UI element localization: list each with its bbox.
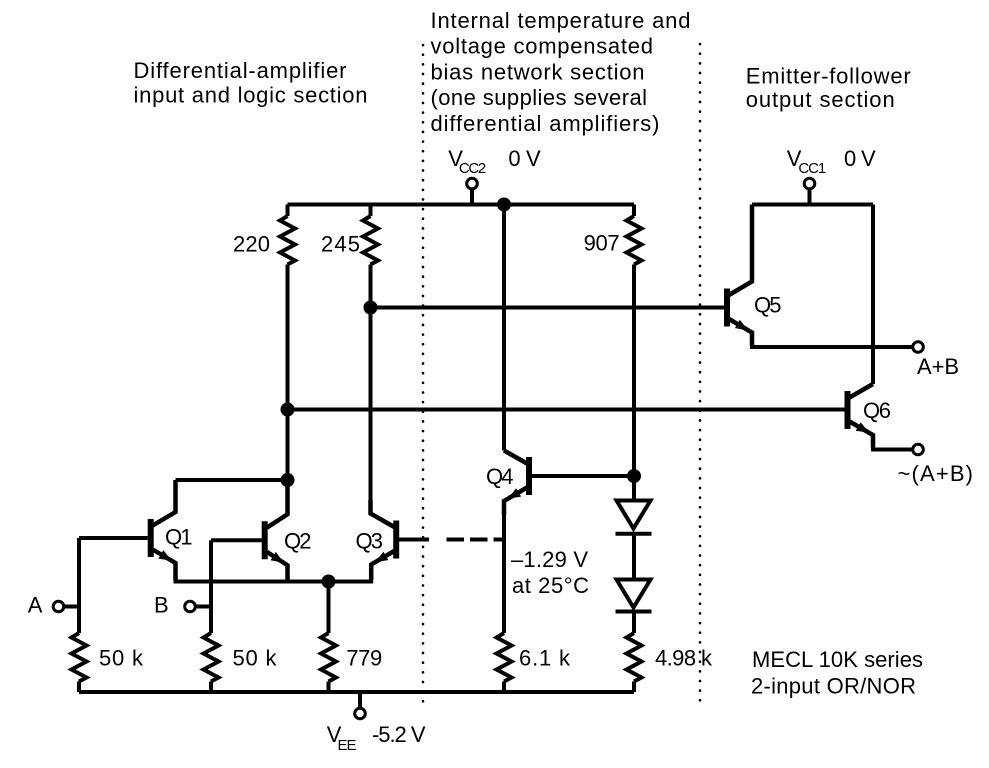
wire: VEE bottom rail xyxy=(79,690,634,694)
svg-text:Q2: Q2 xyxy=(284,528,312,553)
wire: 220 branch vertical (VCC2 to Q2 collector) xyxy=(286,205,290,217)
wire: VEE terminal stub xyxy=(358,692,362,709)
svg-text:50 k: 50 k xyxy=(233,646,278,671)
wire: Q6 emitter to ~(A+B) output xyxy=(873,445,913,450)
svg-text:6.1 k: 6.1 k xyxy=(519,646,571,671)
resistor R 50k (B) xyxy=(204,633,219,682)
diode D2 cathode bar xyxy=(616,610,652,614)
transistor Q5 emitter arrow xyxy=(735,320,748,331)
wire: dashed bias connection to Q3 base xyxy=(447,538,503,542)
transistor Q6 emitter xyxy=(850,422,874,448)
svg-text:EE: EE xyxy=(338,737,357,754)
wire: Q2 base wire from B xyxy=(211,538,262,542)
node: dot junction Q4 base / diodes xyxy=(627,469,641,483)
wire: 50k B to rail xyxy=(209,682,213,693)
transistor Q5 emitter xyxy=(729,319,752,345)
svg-text:245: 245 xyxy=(321,232,360,257)
wire: 245 branch vertical top xyxy=(369,205,373,217)
wire: 4.98k to rail xyxy=(632,682,636,693)
transistor Q1 base bar xyxy=(148,519,154,557)
terminal VCC1 xyxy=(804,178,815,189)
transistor Q3 emitter xyxy=(371,551,394,580)
wire: 6.1k to rail xyxy=(502,682,506,693)
svg-text:–1.29 V: –1.29 V xyxy=(511,547,588,572)
svg-text:907: 907 xyxy=(584,231,620,256)
transistor Q3 base bar xyxy=(393,521,399,559)
wire: Q4 emitter vertical to 6.1k xyxy=(502,501,506,633)
wire: between diodes xyxy=(632,534,636,579)
wire: D2 to 4.98k xyxy=(632,612,636,634)
wire: 779 to rail xyxy=(327,682,331,693)
wire: 50k A to rail xyxy=(77,682,81,693)
wire: VCC2 terminal stub xyxy=(470,188,474,205)
svg-text:CC1: CC1 xyxy=(798,160,826,177)
svg-text:MECL 10K series: MECL 10K series xyxy=(752,647,923,672)
svg-text:Q3: Q3 xyxy=(356,529,384,554)
svg-text:Q1: Q1 xyxy=(165,524,193,549)
svg-text:differential amplifiers): differential amplifiers) xyxy=(431,111,660,136)
wire: emitter rail Q1-Q3 xyxy=(174,580,374,584)
transistor Q4 base bar xyxy=(526,457,532,495)
wire: A input stub xyxy=(64,605,79,609)
svg-text:Q6: Q6 xyxy=(863,398,891,423)
resistor R 245 xyxy=(363,216,378,265)
wire: Q3 base stub xyxy=(399,538,429,542)
svg-text:~(A+B): ~(A+B) xyxy=(898,461,974,486)
resistor R 220 xyxy=(280,216,295,265)
svg-text:779: 779 xyxy=(346,646,382,671)
wire: 220 bottom vertical xyxy=(286,265,290,513)
diode D1 cathode bar xyxy=(616,532,652,536)
resistor R 6.1k xyxy=(497,633,512,682)
svg-text:50 k: 50 k xyxy=(99,646,144,671)
transistor Q3 emitter arrow xyxy=(375,552,388,563)
transistor Q2 emitter arrow xyxy=(271,552,284,563)
svg-text:bias network section: bias network section xyxy=(431,60,645,85)
svg-text:Internal temperature and: Internal temperature and xyxy=(431,8,691,33)
svg-text:Q5: Q5 xyxy=(754,293,782,318)
node: dot junction Q6 base wire xyxy=(281,403,295,417)
wire: Q6 collector vertical to VCC1 xyxy=(871,205,875,385)
wire: Q6 base wire xyxy=(288,408,845,412)
terminal VEE xyxy=(355,708,366,719)
wire: VCC2 to Q4 collector vertical xyxy=(502,205,506,451)
transistor Q1 emitter arrow xyxy=(158,550,171,561)
svg-text:B: B xyxy=(154,593,169,618)
svg-text:CC2: CC2 xyxy=(459,160,486,177)
transistor Q5 base bar xyxy=(724,289,730,327)
svg-text:Q4: Q4 xyxy=(486,464,514,489)
wire: Q5 base wire xyxy=(371,306,725,310)
wire: VCC2 top rail xyxy=(288,203,635,207)
transistor Q4 collector xyxy=(504,451,527,464)
svg-text:voltage compensated: voltage compensated xyxy=(431,34,654,59)
transistor Q2 emitter xyxy=(267,552,288,580)
transistor Q2 collector xyxy=(267,480,288,528)
wire: Q1 base wire from A xyxy=(79,536,148,540)
terminal VCC2 xyxy=(467,178,478,189)
svg-text:output section: output section xyxy=(746,87,895,112)
wire: VCC1 terminal stub xyxy=(808,188,812,205)
svg-text:-5.2 V: -5.2 V xyxy=(372,722,426,747)
svg-text:0 V: 0 V xyxy=(844,146,876,171)
section divider dotted line right xyxy=(699,44,702,704)
node: dot junction Q5 base wire xyxy=(364,301,378,315)
wire: Q5 emitter to A+B output xyxy=(752,343,913,347)
svg-text:at 25°C: at 25°C xyxy=(512,573,589,598)
svg-text:Emitter-follower: Emitter-follower xyxy=(746,63,911,88)
svg-text:A: A xyxy=(28,593,43,618)
node: emitter rail dot to 779 xyxy=(322,575,336,589)
transistor Q1 collector xyxy=(153,480,176,526)
transistor Q4 emitter arrow xyxy=(508,488,521,499)
svg-text:220: 220 xyxy=(233,232,270,257)
resistor R 50k (A) xyxy=(72,633,87,682)
svg-text:0 V: 0 V xyxy=(508,146,541,171)
wire: Q4 base wire to diode node xyxy=(532,474,635,478)
wire: 245 bottom vertical to Q3 collector xyxy=(369,265,373,514)
terminal input A xyxy=(53,601,64,612)
wire: 907 branch vertical top xyxy=(632,205,636,217)
transistor Q6 collector xyxy=(850,384,874,398)
wire: VCC1 top rail xyxy=(752,203,873,207)
wire: A branch vertical xyxy=(77,538,81,633)
terminal input B xyxy=(185,601,196,612)
svg-text:input and logic section: input and logic section xyxy=(134,83,368,108)
wire: B input stub xyxy=(195,605,211,609)
svg-text:(one supplies several: (one supplies several xyxy=(431,85,648,110)
transistor Q5 collector xyxy=(729,205,752,296)
transistor Q6 emitter arrow xyxy=(856,422,869,433)
node: dot junction Q1 collector wire xyxy=(281,473,295,487)
terminal A+B output xyxy=(913,342,924,353)
wire: Q1 collector to node xyxy=(176,478,288,482)
transistor Q6 base bar xyxy=(845,391,851,429)
section divider dotted line left xyxy=(422,45,425,709)
resistor R 907 xyxy=(627,216,642,265)
wire: 907 bottom vertical to diode node xyxy=(632,265,636,500)
terminal ~(A+B) output xyxy=(913,444,924,455)
diode D1 triangle xyxy=(617,501,651,529)
transistor Q2 base bar xyxy=(262,521,268,559)
resistor R 4.98k xyxy=(627,633,642,682)
transistor Q3 collector xyxy=(371,500,395,527)
transistor Q1 emitter xyxy=(153,550,176,581)
diode D2 triangle xyxy=(617,580,651,608)
svg-text:2-input OR/NOR: 2-input OR/NOR xyxy=(751,674,916,699)
svg-text:A+B: A+B xyxy=(917,354,959,379)
wire: emitter node to 779 xyxy=(327,582,331,634)
svg-text:Differential-amplifier: Differential-amplifier xyxy=(134,58,347,83)
wire: B branch vertical xyxy=(209,540,213,633)
node: VCC2 junction dot xyxy=(497,198,511,212)
resistor R 779 xyxy=(321,633,336,682)
transistor Q4 emitter xyxy=(504,488,527,516)
svg-text:4.98 k: 4.98 k xyxy=(655,646,713,671)
